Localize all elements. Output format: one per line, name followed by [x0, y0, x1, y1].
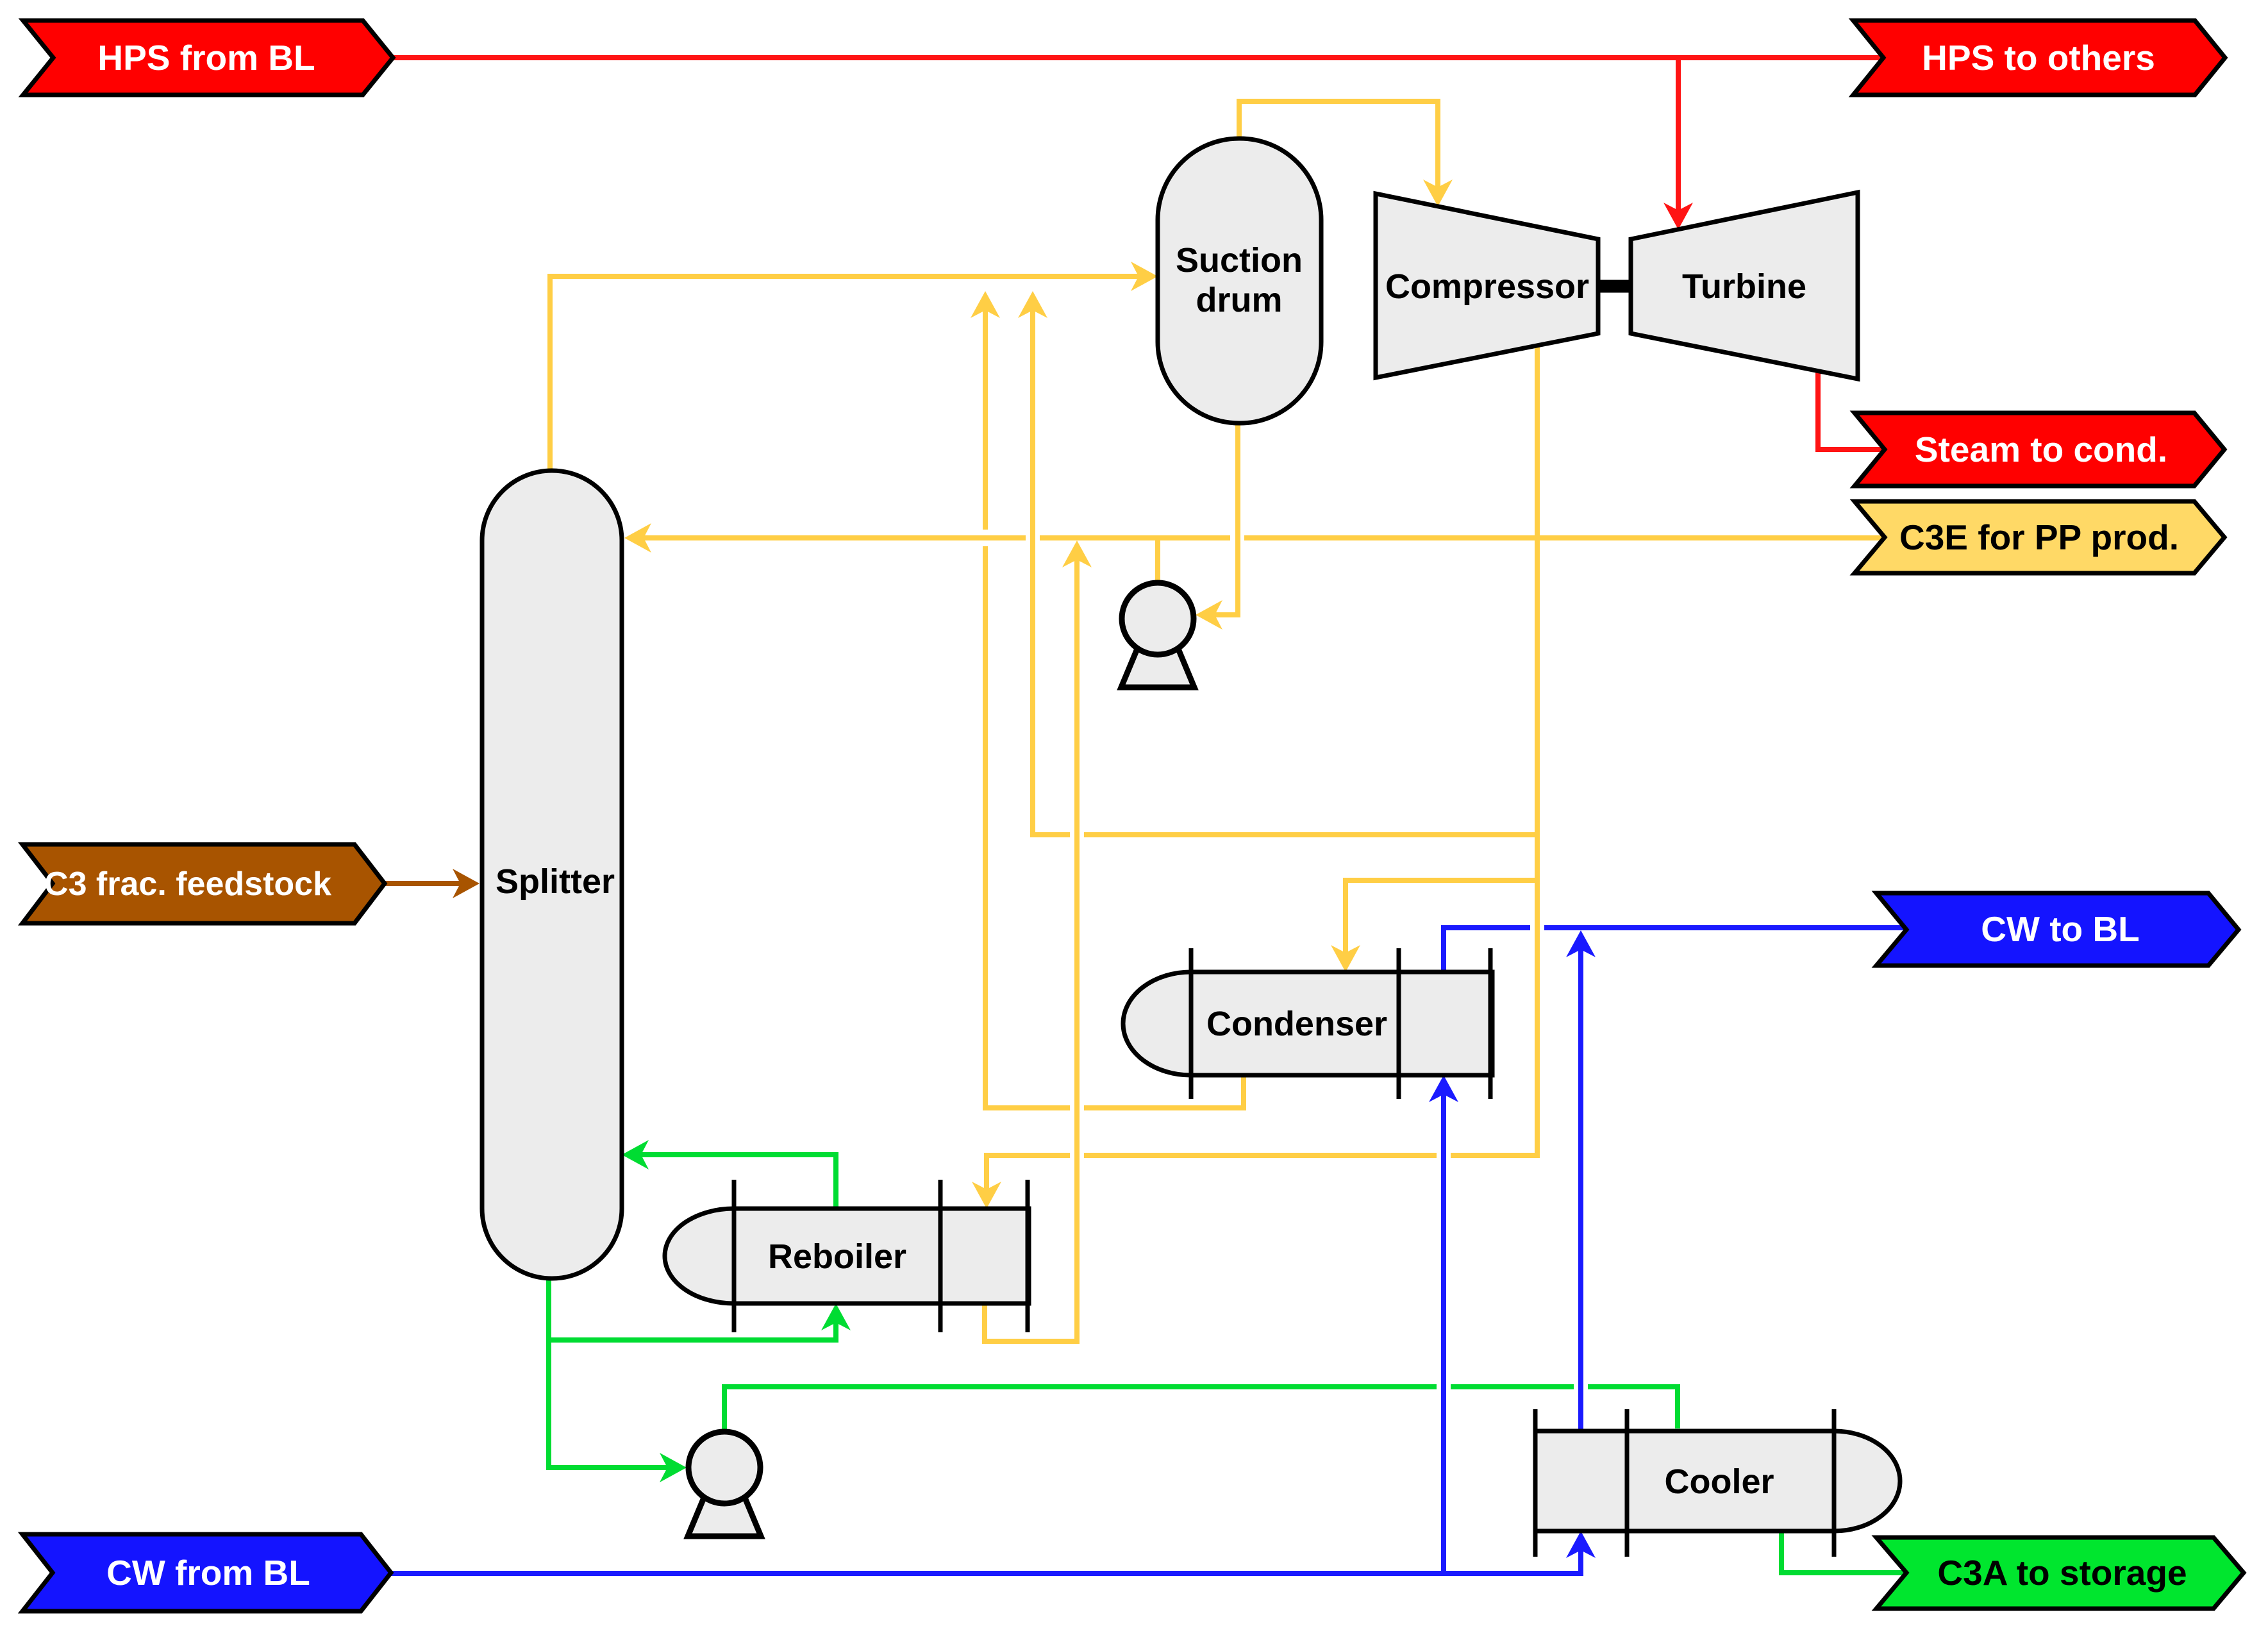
svg-text:Reboiler: Reboiler: [768, 1237, 906, 1276]
svg-text:C3E for PP prod.: C3E for PP prod.: [1899, 517, 2179, 557]
svg-text:C3 frac. feedstock: C3 frac. feedstock: [44, 866, 331, 903]
svg-text:drum: drum: [1196, 281, 1283, 319]
svg-text:C3A to storage: C3A to storage: [1937, 1553, 2187, 1593]
svg-text:Steam to cond.: Steam to cond.: [1915, 430, 2167, 469]
svg-text:Cooler: Cooler: [1664, 1462, 1774, 1501]
svg-text:HPS from BL: HPS from BL: [97, 38, 315, 78]
svg-text:Condenser: Condenser: [1206, 1005, 1387, 1043]
svg-text:Turbine: Turbine: [1682, 267, 1806, 306]
svg-text:Compressor: Compressor: [1385, 267, 1589, 306]
svg-text:HPS to others: HPS to others: [1922, 38, 2155, 78]
svg-text:CW from BL: CW from BL: [106, 1553, 310, 1593]
svg-text:CW to BL: CW to BL: [1981, 909, 2139, 949]
svg-text:Splitter: Splitter: [496, 862, 615, 901]
svg-text:Suction: Suction: [1176, 241, 1303, 280]
